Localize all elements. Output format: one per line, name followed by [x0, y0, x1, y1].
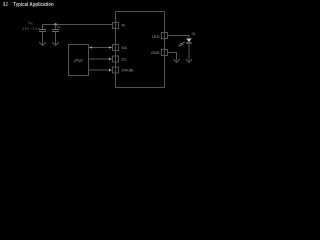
wire LED pin to D1 — [169, 36, 190, 39]
pin STROBE pad — [113, 67, 119, 73]
LED D1 — [186, 39, 191, 43]
ground (GND pin) — [173, 59, 179, 62]
wire STROBE — [89, 69, 112, 71]
ground (C1) — [52, 42, 59, 45]
capacitor CIN (input cap) — [39, 25, 46, 45]
wire GND pin to ground — [169, 53, 177, 61]
svg-text:µP/µC: µP/µC — [74, 58, 84, 62]
wire VIN rail — [43, 24, 113, 26]
background — [0, 0, 200, 93]
svg-text:LED: LED — [152, 35, 160, 39]
pin LED pad — [162, 33, 168, 39]
svg-text:STROBE: STROBE — [122, 69, 134, 73]
svg-text:SCL: SCL — [122, 58, 127, 62]
svg-text:C1: C1 — [57, 25, 61, 29]
svg-text:GND: GND — [151, 51, 160, 55]
svg-text:Typical Application: Typical Application — [13, 2, 53, 8]
ground (D1) — [186, 59, 192, 62]
svg-text:3.6 V – 5.5 V: 3.6 V – 5.5 V — [22, 26, 41, 30]
LED D1 emission arrows — [178, 42, 185, 46]
pin SCL pad — [113, 56, 119, 62]
pin GND pad — [162, 50, 168, 56]
ground (input cap) — [39, 42, 46, 45]
capacitor C1 — [52, 25, 59, 45]
pin SDA pad — [113, 45, 119, 51]
wire SDA (bidirectional) — [89, 47, 112, 49]
pin IN pad — [113, 23, 119, 29]
op-amp U1 main IC box — [116, 12, 165, 88]
wire SCL — [89, 58, 112, 60]
microcontroller box — [69, 45, 89, 76]
node junction C1 — [54, 23, 56, 25]
svg-text:SDA: SDA — [122, 46, 128, 50]
svg-text:D1: D1 — [192, 32, 196, 36]
svg-text:8.2: 8.2 — [3, 2, 7, 8]
title 8.2 Typical Application — [3, 2, 53, 8]
wire D1 cathode to ground — [188, 43, 190, 60]
